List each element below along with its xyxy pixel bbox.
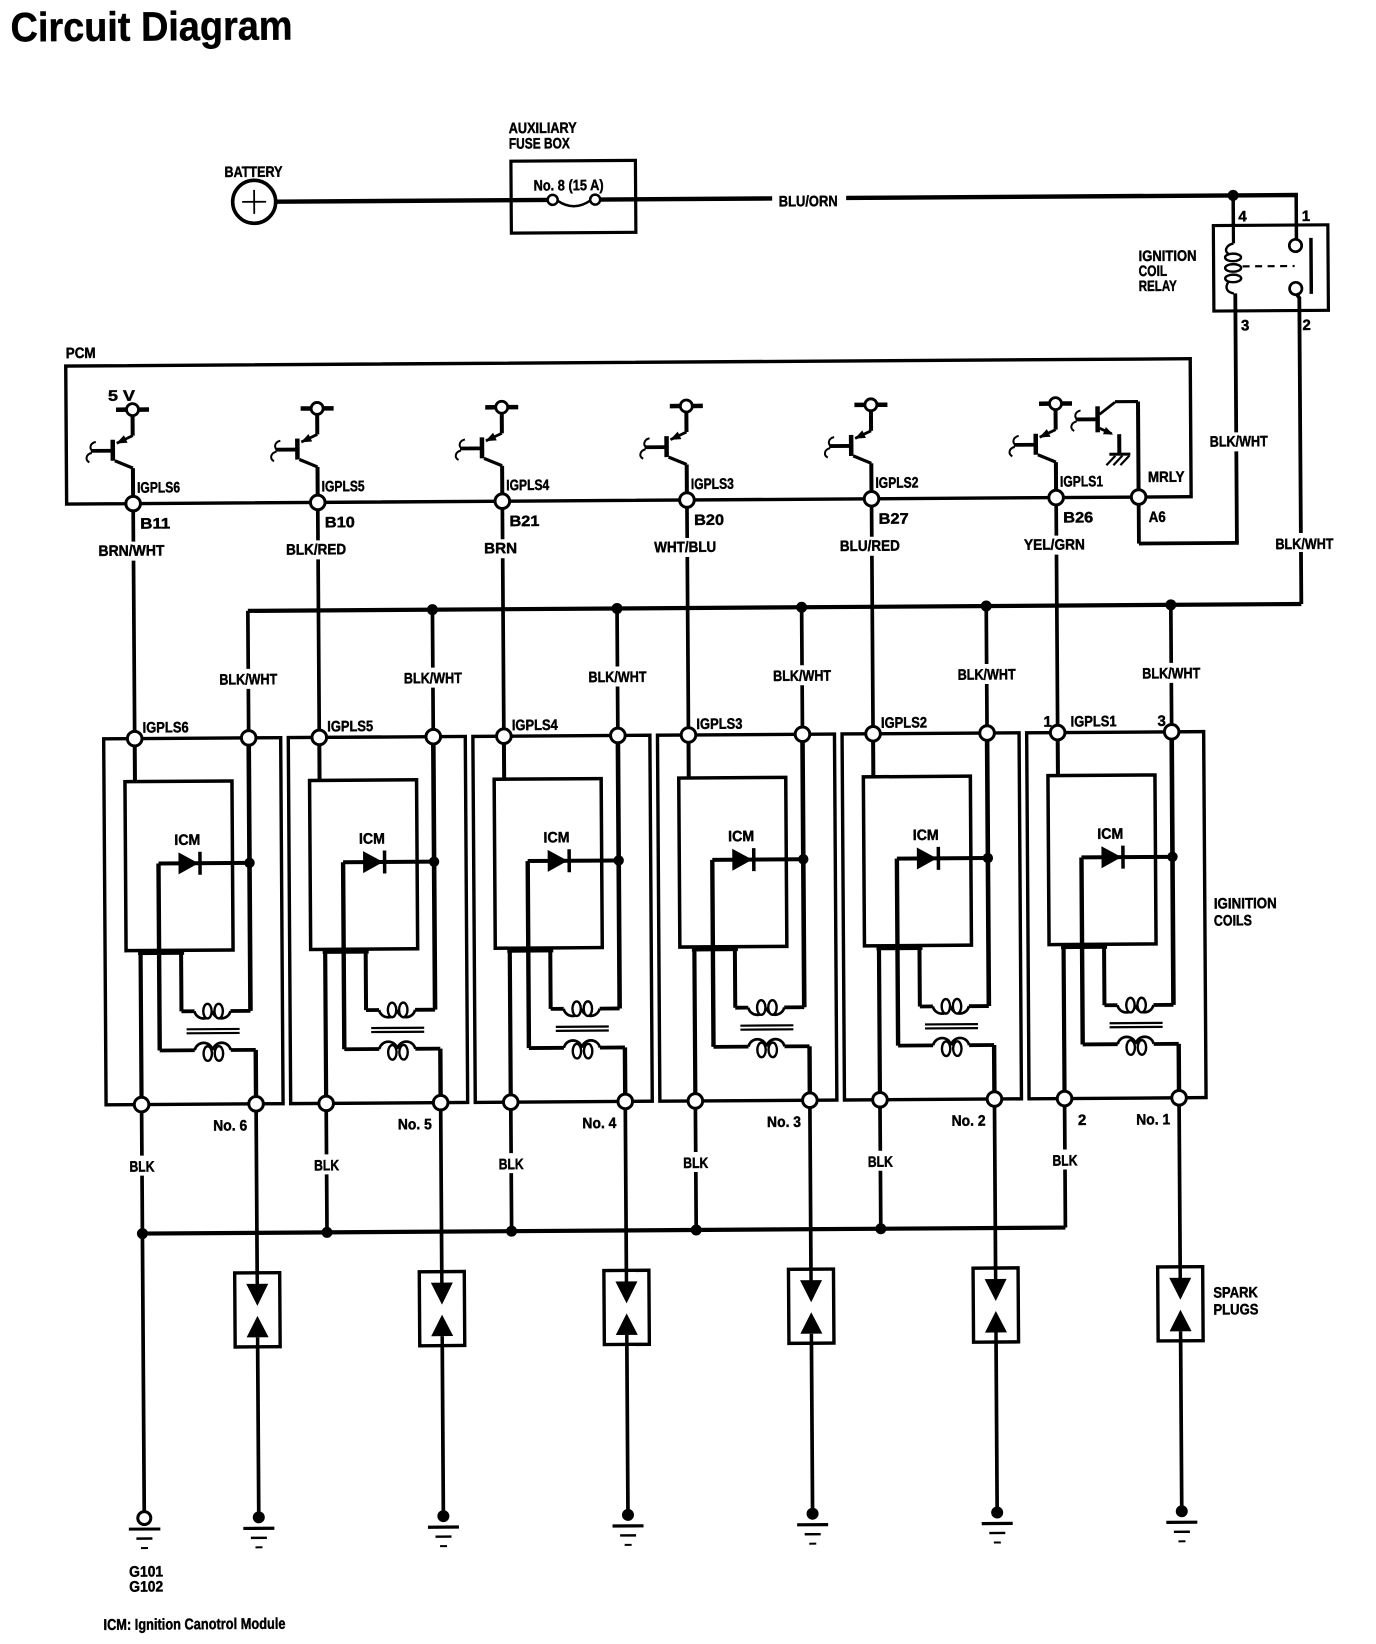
junction dot (ground bus) — [691, 1224, 702, 1235]
ignition coil No.2 box — [842, 733, 1021, 1100]
svg-text:1: 1 — [1302, 208, 1310, 225]
diode D3 (inside ICM) — [712, 848, 801, 872]
coil 4 spark output pin — [618, 1094, 633, 1109]
coil 3 pin (B+) — [795, 727, 810, 742]
wire supply bus to coil 5 (BLK/WHT) with junction dot — [427, 604, 439, 729]
coil 1 signal stub wire — [1056, 740, 1060, 776]
label BLK/RED — [284, 541, 348, 558]
spark plug 6 — [235, 1273, 280, 1347]
primary winding (coil 5) — [366, 1002, 435, 1017]
ground (MRLY emitter) — [1106, 454, 1130, 465]
transistor Q4 (IGPLS4 driver, 5V supply terminal) — [455, 401, 518, 495]
secondary winding (coil 6) — [160, 1043, 256, 1062]
BLK/WHT supply bus — [248, 604, 1301, 611]
ignition coil No.3 box — [657, 734, 836, 1101]
coil 1 pin (IGPLS1) — [1050, 725, 1065, 740]
junction dot (diode to B+, coil 3) — [798, 854, 808, 864]
ICM box (coil 1) — [1048, 775, 1156, 945]
primary winding (coil 3) — [735, 1000, 804, 1015]
coil 3 spark output pin — [803, 1093, 818, 1108]
wire B20 to ignition coil (WHT/BLU) — [687, 507, 688, 727]
coil 2 pin (IGPLS2) — [866, 726, 881, 741]
diode D4 (inside ICM) — [528, 849, 617, 873]
wire B21 to ignition coil (BRN) — [502, 509, 503, 729]
label BLK (coil 1) — [1049, 1152, 1081, 1169]
svg-text:No. 8 (15 A): No. 8 (15 A) — [534, 177, 604, 194]
junction dot (diode to B+, coil 6) — [244, 858, 254, 868]
transistor Q7 (MRLY driver) — [1071, 402, 1138, 492]
svg-text:No. 4: No. 4 — [582, 1115, 617, 1132]
ICM box (coil 6) — [125, 781, 233, 951]
wire supply bus to coil 4 (BLK/WHT) with junction dot — [612, 603, 624, 728]
label ICM — [728, 828, 754, 845]
svg-text:IGPLS6: IGPLS6 — [143, 719, 189, 736]
junction dot (ground bus) — [321, 1227, 332, 1238]
primary feed wire from ICM (coil 5) — [364, 949, 368, 1010]
ICM ground link (coil 2) — [876, 946, 922, 950]
svg-text:PLUGS: PLUGS — [1213, 1301, 1258, 1318]
spark plug 1 — [1158, 1267, 1203, 1341]
label 5 V — [108, 388, 135, 405]
svg-text:BLK: BLK — [868, 1154, 893, 1171]
svg-text:ICM: ICM — [174, 832, 200, 849]
coil 2 spark output pin — [987, 1092, 1002, 1107]
label YEL/GRN — [1022, 536, 1087, 553]
svg-text:PCM: PCM — [66, 345, 96, 362]
label BLK/WHT (relay pin 2 wire) — [1273, 536, 1335, 553]
svg-text:IGPLS2: IGPLS2 — [881, 714, 927, 731]
ignition coil No.4 box — [473, 735, 652, 1102]
svg-text:Circuit Diagram: Circuit Diagram — [10, 3, 292, 51]
svg-text:BLK/WHT: BLK/WHT — [773, 668, 831, 685]
battery — [233, 180, 276, 223]
PCM pin A6 — [1131, 490, 1146, 505]
label MRLY — [1148, 469, 1185, 486]
svg-text:BLK/WHT: BLK/WHT — [1142, 665, 1200, 682]
label BLK (coil 6) — [126, 1158, 158, 1175]
junction dot (ground bus) — [137, 1228, 148, 1239]
coil 4 pin (IGPLS4) — [497, 729, 512, 744]
primary feed wire from ICM (coil 1) — [1102, 944, 1106, 1005]
label ICM — [359, 830, 385, 847]
transistor Q2 (IGPLS2 driver, 5V supply terminal) — [825, 399, 888, 493]
coil 6 ground return wire — [138, 951, 143, 1098]
coil 6 pin (B+) — [241, 731, 256, 746]
coil 1 pin (B+) — [1164, 724, 1179, 739]
wire B26 to ignition coil (YEL/GRN) — [1056, 505, 1057, 725]
ICM ground link (coil 4) — [507, 948, 553, 952]
label IGPLS2 (PCM) — [875, 474, 918, 491]
label B27 — [879, 511, 909, 528]
diode anode return wire (coil 3) — [712, 860, 713, 1047]
ground (spark plug 1) — [1166, 1505, 1197, 1541]
coil 2 B+ internal wire — [987, 740, 989, 1006]
spark plug 2 — [973, 1268, 1018, 1342]
junction dot (diode to B+, coil 1) — [1167, 852, 1177, 862]
diode anode return wire (coil 1) — [1081, 857, 1082, 1044]
PCM pin B26 — [1049, 490, 1064, 505]
transformer core (coil 2) — [925, 1024, 978, 1028]
label IGPLS6 (coil 6) — [143, 719, 189, 736]
secondary winding (coil 3) — [713, 1039, 809, 1058]
wire coil 3 spark output to plug — [810, 1108, 811, 1270]
svg-text:BLK/WHT: BLK/WHT — [219, 671, 277, 688]
svg-text:ICM: Ignition Canotrol Module: ICM: Ignition Canotrol Module — [103, 1616, 285, 1634]
svg-text:BRN: BRN — [484, 540, 517, 557]
primary feed wire from ICM (coil 4) — [548, 948, 552, 1009]
wire coil 4 spark output to plug — [625, 1109, 626, 1271]
secondary winding (coil 2) — [898, 1038, 994, 1057]
label IGPLS1 (PCM) — [1060, 473, 1103, 490]
coil 3 signal stub wire — [687, 742, 691, 778]
junction dot (ground bus) — [506, 1226, 517, 1237]
transformer core (coil 3) — [740, 1025, 793, 1029]
ICM box (coil 4) — [494, 779, 602, 949]
label BLK (coil 4) — [495, 1156, 527, 1173]
primary feed wire from ICM (coil 3) — [733, 947, 737, 1008]
wire spark plug 6 to ground — [258, 1347, 259, 1512]
ICM ground link (coil 1) — [1061, 945, 1107, 949]
primary winding (coil 1) — [1104, 998, 1173, 1013]
relay contact (pin 2 side) — [1290, 282, 1302, 294]
spark plug 5 — [419, 1271, 464, 1345]
diode anode return wire (coil 2) — [897, 859, 898, 1046]
svg-text:ICM: ICM — [543, 829, 569, 846]
wire spark plug 4 to ground — [627, 1344, 628, 1509]
relay coil winding — [1225, 225, 1241, 293]
coil 3 B+ internal wire — [803, 742, 805, 1008]
ground (spark plug 2) — [982, 1506, 1013, 1542]
secondary output wire (coil 5) — [438, 1049, 443, 1096]
svg-text:BLK/WHT: BLK/WHT — [1275, 536, 1333, 553]
svg-text:IGPLS1: IGPLS1 — [1060, 473, 1103, 490]
footnote ICM definition — [103, 1616, 285, 1634]
coil 4 ground return wire — [508, 948, 513, 1095]
ground bus — [142, 1228, 1065, 1234]
label ICM — [174, 832, 200, 849]
secondary output wire (coil 1) — [1177, 1044, 1182, 1091]
svg-text:BLK: BLK — [683, 1155, 708, 1172]
svg-text:WHT/BLU: WHT/BLU — [654, 539, 716, 556]
svg-text:2: 2 — [1302, 317, 1310, 334]
transformer core (coil 6) — [187, 1029, 240, 1033]
relay pin 1 label — [1302, 208, 1310, 225]
wire relay pin 2 to supply bus (BLK/WHT) — [1296, 293, 1301, 604]
label B11 — [140, 515, 170, 532]
label BLK/WHT (coil 5 feed) — [402, 669, 464, 687]
PCM pin B10 — [310, 495, 325, 510]
label IGNITION COILS — [1214, 895, 1277, 929]
svg-text:No. 1: No. 1 — [1136, 1111, 1170, 1128]
label BLU/RED — [838, 538, 902, 555]
label IGPLS1 (coil 1) — [1071, 713, 1117, 730]
label IGPLS3 (PCM) — [691, 476, 734, 493]
ignition coil relay label — [1138, 248, 1196, 295]
svg-text:COILS: COILS — [1214, 912, 1252, 929]
label IGPLS3 (coil 3) — [696, 716, 742, 733]
label IGPLS4 (coil 4) — [512, 717, 559, 734]
primary winding (coil 4) — [551, 1001, 620, 1016]
svg-text:BLU/RED: BLU/RED — [840, 538, 900, 555]
label No. 3 — [767, 1114, 801, 1131]
svg-text:BLK/WHT: BLK/WHT — [404, 670, 462, 687]
svg-text:B27: B27 — [879, 511, 909, 528]
wire relay pin 3 to PCM A6 (BLK/WHT) — [1137, 293, 1239, 543]
diode D6 (inside ICM) — [158, 851, 247, 875]
coil 1 ground return wire — [1061, 945, 1066, 1092]
wire coil 2 ground (BLK) — [878, 1107, 882, 1229]
coil 5 ground return wire — [323, 949, 328, 1096]
label BLK (coil 2) — [864, 1154, 896, 1171]
ground (spark plug 3) — [797, 1508, 828, 1544]
primary feed wire from ICM (coil 2) — [917, 945, 921, 1006]
wire coil 1 ground (BLK) — [1063, 1106, 1067, 1228]
secondary output wire (coil 2) — [992, 1045, 997, 1092]
svg-text:B10: B10 — [325, 514, 355, 531]
ICM box (coil 2) — [863, 776, 971, 946]
PCM box — [66, 359, 1191, 504]
svg-text:No. 3: No. 3 — [767, 1114, 801, 1131]
coil 4 pin (B+) — [611, 728, 626, 743]
diode anode return wire (coil 4) — [528, 861, 529, 1048]
label BRN/WHT — [96, 542, 166, 559]
primary winding (coil 2) — [920, 999, 989, 1014]
svg-text:IGINITION: IGINITION — [1214, 895, 1277, 912]
fuse value label No. 8 (15 A) — [534, 177, 604, 194]
svg-text:G102: G102 — [129, 1578, 163, 1595]
ground G101/G102 — [129, 1511, 161, 1548]
coil 4 signal stub wire — [502, 744, 506, 780]
coil 5 pin (IGPLS5) — [312, 730, 327, 745]
wire coil 1 spark output to plug — [1179, 1105, 1180, 1267]
wire coil 5 spark output to plug — [441, 1110, 442, 1272]
relay pin 2 label — [1302, 317, 1310, 334]
coil 6 B+ internal wire — [249, 745, 251, 1011]
svg-text:3: 3 — [1241, 317, 1249, 334]
label No. 6 — [213, 1117, 247, 1134]
wire coil 4 ground (BLK) — [509, 1109, 513, 1231]
ground (spark plug 4) — [612, 1509, 643, 1545]
svg-text:RELAY: RELAY — [1139, 278, 1177, 295]
wire coil 6 spark output to plug — [256, 1111, 257, 1273]
primary feed wire from ICM (coil 6) — [179, 950, 183, 1011]
wire B11 to ignition coil (BRN/WHT) — [133, 511, 134, 731]
wire spark plug 3 to ground — [811, 1343, 812, 1508]
svg-text:YEL/GRN: YEL/GRN — [1024, 536, 1085, 553]
coil 1 ground pin — [1057, 1091, 1072, 1106]
svg-text:ICM: ICM — [728, 828, 754, 845]
wire to relay pin 4 — [1231, 195, 1235, 225]
transformer core (coil 4) — [556, 1027, 609, 1031]
svg-text:ICM: ICM — [359, 830, 385, 847]
coil 6 ground pin — [134, 1097, 149, 1112]
ICM ground link (coil 5) — [323, 950, 369, 954]
wire supply bus to coil 2 (BLK/WHT) with junction dot — [981, 601, 993, 726]
svg-text:B26: B26 — [1063, 509, 1093, 526]
PCM pin B21 — [495, 494, 510, 509]
coil 1 pin 2 label — [1078, 1112, 1086, 1129]
transformer core (coil 5) — [371, 1028, 424, 1032]
label ICM — [543, 829, 569, 846]
svg-text:IGPLS4: IGPLS4 — [512, 717, 559, 734]
wire spark plug 5 to ground — [442, 1346, 443, 1511]
svg-text:ICM: ICM — [913, 827, 939, 844]
coil 4 ground pin — [503, 1095, 518, 1110]
junction dot (diode to B+, coil 5) — [429, 856, 439, 866]
label G101 G102 — [129, 1563, 163, 1595]
transistor Q1 (IGPLS1 driver, 5V supply terminal) — [1009, 397, 1072, 491]
wire coil 2 spark output to plug — [995, 1106, 996, 1268]
svg-text:FUSE BOX: FUSE BOX — [509, 135, 570, 152]
relay contact blade — [1309, 238, 1313, 294]
relay pin 3 label — [1241, 317, 1249, 334]
coil 3 ground return wire — [692, 947, 697, 1094]
label IGPLS5 (PCM) — [322, 478, 365, 495]
svg-text:No. 2: No. 2 — [952, 1113, 986, 1130]
PCM pin B27 — [864, 491, 879, 506]
ICM box (coil 5) — [310, 780, 418, 950]
svg-text:MRLY: MRLY — [1148, 469, 1185, 486]
battery label — [224, 164, 282, 181]
svg-text:BLK/WHT: BLK/WHT — [1210, 433, 1268, 450]
transistor Q3 (IGPLS3 driver, 5V supply terminal) — [640, 400, 703, 494]
relay contact (pin 1 side) — [1289, 225, 1302, 252]
svg-text:IGPLS6: IGPLS6 — [137, 479, 180, 496]
wire spark plug 2 to ground — [996, 1342, 997, 1507]
wire supply bus to coil 6 (BLK/WHT) — [246, 611, 250, 731]
coil 6 pin (IGPLS6) — [127, 731, 142, 746]
label No. 2 — [952, 1113, 986, 1130]
secondary output wire (coil 4) — [623, 1047, 628, 1094]
svg-text:IGPLS4: IGPLS4 — [506, 477, 550, 494]
secondary output wire (coil 3) — [807, 1046, 812, 1093]
diode D2 (inside ICM) — [897, 847, 986, 871]
transistor Q6 (IGPLS6 driver, 5V supply terminal) — [86, 404, 149, 498]
label BLK/WHT (coil 3 feed) — [771, 667, 833, 685]
wire BLU/ORN to relay pin 1 — [846, 195, 1298, 228]
coil 2 pin (B+) — [980, 726, 995, 741]
coil 2 signal stub wire — [871, 741, 875, 777]
coil 2 ground return wire — [877, 946, 882, 1093]
coil 1 B+ internal wire — [1172, 739, 1174, 1005]
coil 1 pin 1 label — [1043, 714, 1051, 731]
ground (spark plug 6) — [243, 1511, 274, 1547]
coil 1 spark output pin — [1172, 1090, 1187, 1105]
junction dot (diode to B+, coil 4) — [613, 855, 623, 865]
spark plug 3 — [788, 1269, 833, 1343]
coil 5 pin (B+) — [426, 729, 441, 744]
label B21 — [509, 513, 539, 530]
label IGPLS2 (coil 2) — [881, 714, 927, 731]
ICM ground link (coil 6) — [138, 951, 184, 955]
fuse No.8 — [548, 195, 601, 207]
secondary winding (coil 1) — [1083, 1037, 1179, 1056]
ICM ground link (coil 3) — [692, 947, 738, 951]
wire B27 to ignition coil (BLU/RED) — [872, 506, 873, 726]
svg-text:BLU/ORN: BLU/ORN — [779, 193, 838, 210]
ICM box (coil 3) — [679, 777, 787, 947]
label BLK/WHT (coil 1 feed) — [1140, 665, 1202, 683]
svg-text:BLK: BLK — [1052, 1152, 1077, 1169]
svg-text:IGPLS3: IGPLS3 — [696, 716, 742, 733]
label BLK/WHT (coil 2 feed) — [956, 666, 1018, 684]
coil 5 spark output pin — [433, 1095, 448, 1110]
svg-text:A6: A6 — [1149, 509, 1166, 526]
svg-text:IGPLS5: IGPLS5 — [322, 478, 365, 495]
svg-text:BLK: BLK — [314, 1157, 339, 1174]
svg-text:No. 5: No. 5 — [398, 1116, 432, 1133]
wire coil 6 ground (BLK) — [140, 1112, 144, 1234]
label B20 — [694, 512, 724, 529]
coil 3 pin (IGPLS3) — [681, 728, 696, 743]
title — [10, 3, 292, 51]
svg-text:2: 2 — [1078, 1112, 1086, 1129]
label B26 — [1063, 509, 1093, 526]
label WHT/BLU — [652, 539, 718, 556]
PCM pin B11 — [126, 496, 141, 511]
svg-text:BLK/RED: BLK/RED — [286, 541, 346, 558]
label No. 1 — [1136, 1111, 1170, 1128]
coil 1 pin 3 label — [1157, 713, 1165, 730]
wire battery to fuse — [276, 200, 548, 202]
svg-text:BLK/WHT: BLK/WHT — [588, 669, 646, 686]
svg-text:BATTERY: BATTERY — [224, 164, 282, 181]
wire coil 5 ground (BLK) — [324, 1111, 328, 1233]
svg-text:BLK: BLK — [499, 1156, 524, 1173]
primary winding (coil 6) — [181, 1004, 250, 1019]
coil 5 B+ internal wire — [433, 744, 435, 1010]
svg-text:B20: B20 — [694, 512, 724, 529]
label BRN — [482, 540, 519, 557]
wire supply bus to coil 3 (BLK/WHT) with junction dot — [796, 602, 808, 727]
svg-text:IGPLS5: IGPLS5 — [327, 718, 373, 735]
svg-text:4: 4 — [1238, 208, 1247, 225]
label A6 — [1149, 509, 1166, 526]
diode anode return wire (coil 6) — [158, 863, 159, 1050]
svg-text:ICM: ICM — [1097, 826, 1123, 843]
secondary winding (coil 5) — [344, 1041, 440, 1060]
junction dot (ground bus) — [875, 1223, 886, 1234]
spark plug 4 — [604, 1270, 649, 1344]
label IGPLS4 (PCM) — [506, 477, 550, 494]
coil 4 B+ internal wire — [618, 743, 620, 1009]
label BLK/WHT (coil 4 feed) — [586, 668, 648, 686]
diode D5 (inside ICM) — [343, 850, 432, 874]
coil 2 ground pin — [873, 1092, 888, 1107]
ignition coil No.1 box — [1027, 732, 1206, 1099]
PCM label — [66, 345, 96, 362]
ground (spark plug 5) — [428, 1510, 459, 1546]
ignition coil relay box — [1213, 225, 1328, 311]
relay actuation dashed link — [1243, 265, 1295, 268]
label BLK (coil 3) — [680, 1155, 712, 1172]
secondary winding (coil 4) — [529, 1040, 625, 1059]
ignition coil No.5 box — [288, 736, 467, 1103]
coil 6 signal stub wire — [133, 746, 137, 782]
junction dot (diode to B+, coil 2) — [983, 853, 993, 863]
label B10 — [325, 514, 355, 531]
wire B10 to ignition coil (BLK/RED) — [318, 510, 319, 730]
transformer core (coil 1) — [1110, 1023, 1163, 1027]
wire spark plug 1 to ground — [1181, 1341, 1182, 1506]
wire supply bus to coil 1 (BLK/WHT) with junction dot — [1165, 599, 1177, 724]
svg-text:5 V: 5 V — [108, 388, 135, 405]
svg-text:BLK/WHT: BLK/WHT — [958, 666, 1016, 683]
auxiliary fuse box — [511, 160, 636, 233]
diode anode return wire (coil 5) — [343, 862, 344, 1049]
label ICM — [913, 827, 939, 844]
label SPARK PLUGS — [1213, 1284, 1258, 1318]
